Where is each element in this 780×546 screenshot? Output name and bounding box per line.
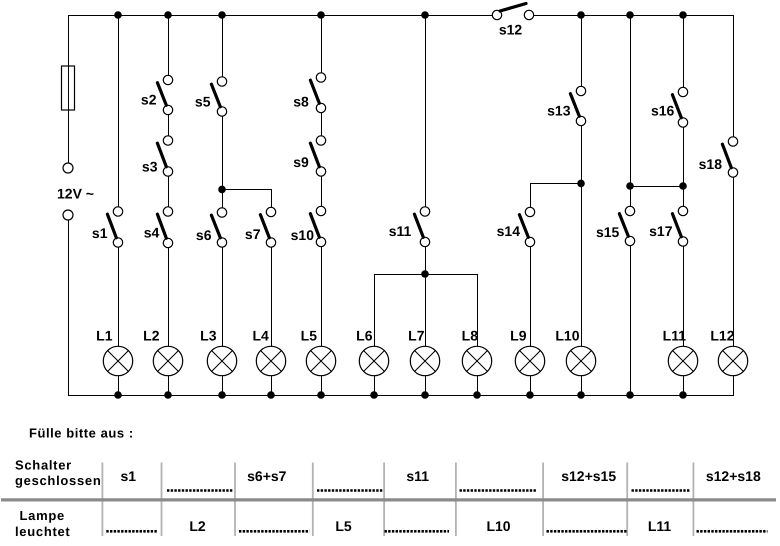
wire top rail left of s12 <box>68 15 497 17</box>
source terminal bottom <box>63 210 73 220</box>
lamp L12 <box>710 328 747 376</box>
svg-text:s11: s11 <box>406 468 429 484</box>
lamp L10 <box>555 328 595 376</box>
svg-text:L2: L2 <box>189 518 206 534</box>
node top rail junction x=118 <box>114 11 122 19</box>
svg-text:L5: L5 <box>301 328 318 344</box>
svg-text:s9: s9 <box>293 154 309 170</box>
wire junction branch s5 to s7 <box>222 189 271 191</box>
table vertical separators <box>102 463 693 537</box>
wire top rail right of s12 <box>529 15 733 17</box>
node top rail junction x=168 <box>164 11 172 19</box>
table dotted blank row2 696.5 <box>697 530 768 533</box>
switch s12 <box>492 4 533 38</box>
svg-text:s8: s8 <box>293 93 309 109</box>
wire bottom return rail <box>68 395 734 397</box>
svg-text:s7: s7 <box>245 226 261 242</box>
lamp L7 <box>408 328 440 376</box>
svg-text:L9: L9 <box>510 328 527 344</box>
node top rail junction x=222 <box>218 11 226 19</box>
wire column L4/s7 <box>271 189 273 395</box>
svg-text:s17: s17 <box>649 223 673 239</box>
svg-text:s14: s14 <box>497 223 521 239</box>
switch s16 <box>651 87 688 127</box>
table row header Lampe leuchtet <box>15 508 70 539</box>
svg-text:s1: s1 <box>121 468 137 484</box>
svg-text:s12+s18: s12+s18 <box>706 468 761 484</box>
svg-text:s5: s5 <box>195 94 211 110</box>
node top rail junction x=683 <box>679 11 687 19</box>
lamp L6 <box>356 328 389 376</box>
table horizontal separator <box>1 498 776 501</box>
lamp L9 <box>510 328 545 376</box>
wire column L6 <box>374 274 376 395</box>
lamp L1 <box>96 328 133 376</box>
svg-text:L12: L12 <box>710 328 734 344</box>
table dotted blank row1 459.5 <box>460 489 537 492</box>
switch s4 <box>144 207 173 248</box>
svg-text:s6+s7: s6+s7 <box>247 468 287 484</box>
wire column L9/s14 <box>530 183 532 395</box>
table dotted blank row2 106.3 <box>106 530 157 533</box>
svg-text:L6: L6 <box>356 328 373 344</box>
switch s7 <box>245 207 276 247</box>
table dotted blank row2 384.5 <box>385 530 450 533</box>
switch s9 <box>293 136 325 176</box>
source label 12V~ <box>57 186 94 202</box>
table cell text s12+s15 <box>561 468 616 484</box>
switch s5 <box>195 77 227 116</box>
switch s8 <box>293 73 325 113</box>
switch s1 <box>92 207 123 247</box>
lamp L8 <box>462 328 492 376</box>
svg-text:L11: L11 <box>663 328 687 344</box>
svg-text:s12: s12 <box>499 22 523 38</box>
switch s2 <box>141 75 173 114</box>
table dotted blank row1 167 <box>167 489 233 492</box>
switch s18 <box>699 137 738 177</box>
switch s11 <box>389 207 430 247</box>
node bottom rail junction x=425 <box>421 391 429 399</box>
table dotted blank row2 546.5 <box>547 530 627 533</box>
svg-text:L10: L10 <box>555 328 579 344</box>
switch s10 <box>291 206 326 246</box>
wire junction branch s15 to s17 column <box>630 186 683 188</box>
svg-text:L11: L11 <box>648 518 672 534</box>
table cell text lamp L11 <box>648 518 672 534</box>
wire column L1/s1 <box>118 15 120 395</box>
svg-text:s13: s13 <box>547 103 571 119</box>
svg-text:Fülle bitte aus :: Fülle bitte aus : <box>29 425 134 440</box>
lamp L3 <box>200 328 237 376</box>
node bottom rail junction x=630 <box>626 391 634 399</box>
wire column L3/s5/s6 <box>222 15 224 395</box>
svg-text:s16: s16 <box>651 103 675 119</box>
svg-text:s6: s6 <box>196 227 212 243</box>
node junction s5/s6/s7 <box>218 186 226 194</box>
node junction s16/s17 <box>679 182 687 190</box>
switch s14 <box>497 207 535 246</box>
wire junction branch L6-L7-L8 <box>374 274 477 276</box>
svg-text:L5: L5 <box>335 518 352 534</box>
switch s6 <box>196 208 227 247</box>
svg-text:L1: L1 <box>96 328 113 344</box>
node bottom rail junction x=374 <box>370 391 378 399</box>
table row header Schalter geschlossen <box>15 457 101 488</box>
node bottom rail junction x=168 <box>164 391 172 399</box>
wire column L12/s18 <box>733 15 735 395</box>
svg-text:s15: s15 <box>596 224 620 240</box>
svg-text:s4: s4 <box>144 225 160 241</box>
wire column s15 (return) <box>630 15 632 395</box>
table cell text s12+s18 <box>706 468 761 484</box>
node bottom rail junction x=683 <box>679 391 687 399</box>
node top rail junction x=630 <box>626 11 634 19</box>
table dotted blank row1 631.5 <box>632 489 691 492</box>
lamp L5 <box>301 328 336 376</box>
svg-text:geschlossen: geschlossen <box>15 473 101 488</box>
svg-text:L7: L7 <box>408 328 425 344</box>
table cell text s1 <box>121 468 137 484</box>
lamp L4 <box>252 328 285 376</box>
wire junction branch s14 to s13 column <box>530 183 581 185</box>
svg-text:leuchtet: leuchtet <box>15 524 70 539</box>
node bottom rail junction x=271 <box>267 391 275 399</box>
svg-text:L8: L8 <box>462 328 479 344</box>
fuse F1 <box>62 66 75 110</box>
node junction s15 branch <box>626 182 634 190</box>
wire column left edge (source branch) <box>68 15 70 395</box>
node junction s13/s14 <box>577 180 585 188</box>
node bottom rail junction x=118 <box>114 391 122 399</box>
node top rail junction x=425 <box>421 11 429 19</box>
svg-text:s1: s1 <box>92 225 108 241</box>
node bottom rail junction x=477 <box>473 391 481 399</box>
svg-text:s2: s2 <box>141 91 157 107</box>
node bottom rail junction x=222 <box>218 391 226 399</box>
wire column L8 <box>477 274 479 395</box>
wire column L5/s8/s9/s10 <box>321 15 323 395</box>
lamp L11 <box>663 328 698 376</box>
svg-text:Schalter: Schalter <box>15 457 72 472</box>
table dotted blank row2 239 <box>239 530 310 533</box>
table cell text s11 <box>406 468 429 484</box>
svg-text:s10: s10 <box>291 227 315 243</box>
source terminal top <box>63 163 73 173</box>
table cell text lamp L2 <box>189 518 206 534</box>
svg-text:L10: L10 <box>486 518 510 534</box>
switch s13 <box>547 86 586 125</box>
table cell text lamp L10 <box>486 518 510 534</box>
wire column L2/s2/s3/s4 <box>168 15 170 395</box>
node top rail junction x=581 <box>577 11 585 19</box>
switch s15 <box>596 206 635 245</box>
lamp L2 <box>143 328 183 376</box>
svg-text:Lampe: Lampe <box>20 508 65 523</box>
node bottom rail junction x=581 <box>577 391 585 399</box>
node bottom rail junction x=530 <box>526 391 534 399</box>
node top rail junction x=321 <box>317 11 325 19</box>
node junction s11 to lamps <box>421 270 429 278</box>
node bottom rail junction x=321 <box>317 391 325 399</box>
wire column L7/s11 <box>425 15 427 395</box>
table cell text s6+s7 <box>247 468 287 484</box>
table dotted blank row1 317 <box>317 489 384 492</box>
wire column L11/s16/s17 <box>683 15 685 395</box>
switch s3 <box>142 136 173 176</box>
svg-text:s3: s3 <box>142 158 158 174</box>
wire column L10/s13 <box>581 15 583 395</box>
table cell text lamp L5 <box>335 518 352 534</box>
svg-text:12V ~: 12V ~ <box>57 186 94 202</box>
switch s17 <box>649 206 688 246</box>
svg-text:L3: L3 <box>200 328 217 344</box>
svg-text:s18: s18 <box>699 156 723 172</box>
table heading <box>29 425 134 440</box>
svg-text:L4: L4 <box>252 328 269 344</box>
svg-text:s12+s15: s12+s15 <box>561 468 616 484</box>
svg-text:L2: L2 <box>143 328 160 344</box>
svg-text:s11: s11 <box>389 223 412 239</box>
